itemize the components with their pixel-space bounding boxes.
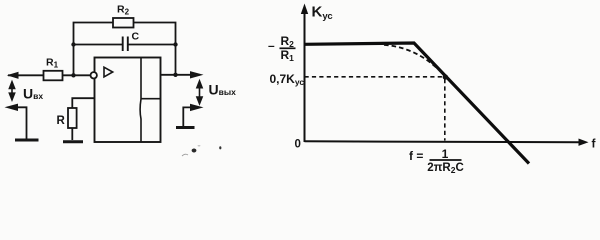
svg-text:0,7Kус: 0,7Kус <box>270 72 305 87</box>
capacitor C <box>123 37 128 52</box>
wire feedback R2 branch <box>74 23 176 46</box>
svg-text:Uвх: Uвх <box>23 86 43 102</box>
label minus R2 over R1 <box>268 34 296 63</box>
svg-text:R1: R1 <box>281 48 295 63</box>
wire input terminal to R1 <box>8 74 44 76</box>
node junction left C <box>71 42 75 46</box>
svg-text:2πR2C: 2πR2C <box>427 162 464 175</box>
wire right feedback vertical <box>175 45 177 75</box>
lower-left arrowhead <box>5 104 19 111</box>
op-amp inner vertical divider <box>139 58 142 143</box>
wire R to ground <box>71 128 73 140</box>
x-axis arrowhead <box>579 139 589 146</box>
wire lower-right terminal <box>183 107 198 126</box>
svg-text:R: R <box>57 115 66 127</box>
svg-text:R1: R1 <box>46 57 59 70</box>
gain curve ideal (flat then slope) <box>305 43 530 164</box>
y-axis Kus <box>304 12 306 142</box>
op-amp inner horizontal divider <box>141 98 161 100</box>
resistor R <box>68 108 77 128</box>
svg-text:R2: R2 <box>117 4 130 17</box>
svg-text:f =: f = <box>409 149 423 163</box>
svg-text:R2: R2 <box>281 34 295 49</box>
wire R1 to op-amp input <box>63 74 91 76</box>
node junction R1 feedback <box>71 73 75 77</box>
svg-text:f: f <box>592 137 597 151</box>
svg-text:C: C <box>132 31 140 43</box>
wire lower-left terminal <box>9 107 27 139</box>
wire capacitor branch <box>74 44 176 46</box>
op-amp U1 body <box>95 58 161 143</box>
ground under R <box>63 140 83 143</box>
wire left feedback vertical <box>73 45 75 76</box>
node junction right C <box>173 42 177 46</box>
svg-text:0: 0 <box>295 139 301 151</box>
resistor R1 <box>44 71 63 81</box>
output arrowhead <box>190 71 204 78</box>
wire R to op-amp noninverting input <box>72 98 94 108</box>
resistor R2 <box>113 18 134 28</box>
point at 0.7Kus cutoff <box>443 74 448 79</box>
dashed vertical at cutoff frequency <box>444 79 446 141</box>
svg-text:Uвых: Uвых <box>209 82 237 98</box>
lower-right arrowhead <box>190 104 204 111</box>
op-amp triangle symbol <box>104 67 113 77</box>
svg-text:Kус: Kус <box>312 4 333 23</box>
load Uvyx double arrow <box>197 81 202 104</box>
gain curve actual dashed rolloff <box>384 45 446 78</box>
source Uvx double arrow <box>9 82 14 100</box>
x-axis f <box>305 141 583 142</box>
svg-text:–: – <box>268 39 275 53</box>
svg-text:1: 1 <box>442 147 449 161</box>
label cutoff formula f = 1 / 2piR2C <box>409 147 464 175</box>
ground lower-right <box>176 126 195 129</box>
input arrowhead left <box>7 72 19 79</box>
dashed level 0.7Kus <box>305 76 445 78</box>
op-amp inverting input circle <box>91 72 97 78</box>
y-axis arrowhead <box>301 4 308 15</box>
ground lower-left <box>15 139 39 142</box>
node junction output feedback <box>173 73 177 77</box>
wire output <box>161 74 200 76</box>
